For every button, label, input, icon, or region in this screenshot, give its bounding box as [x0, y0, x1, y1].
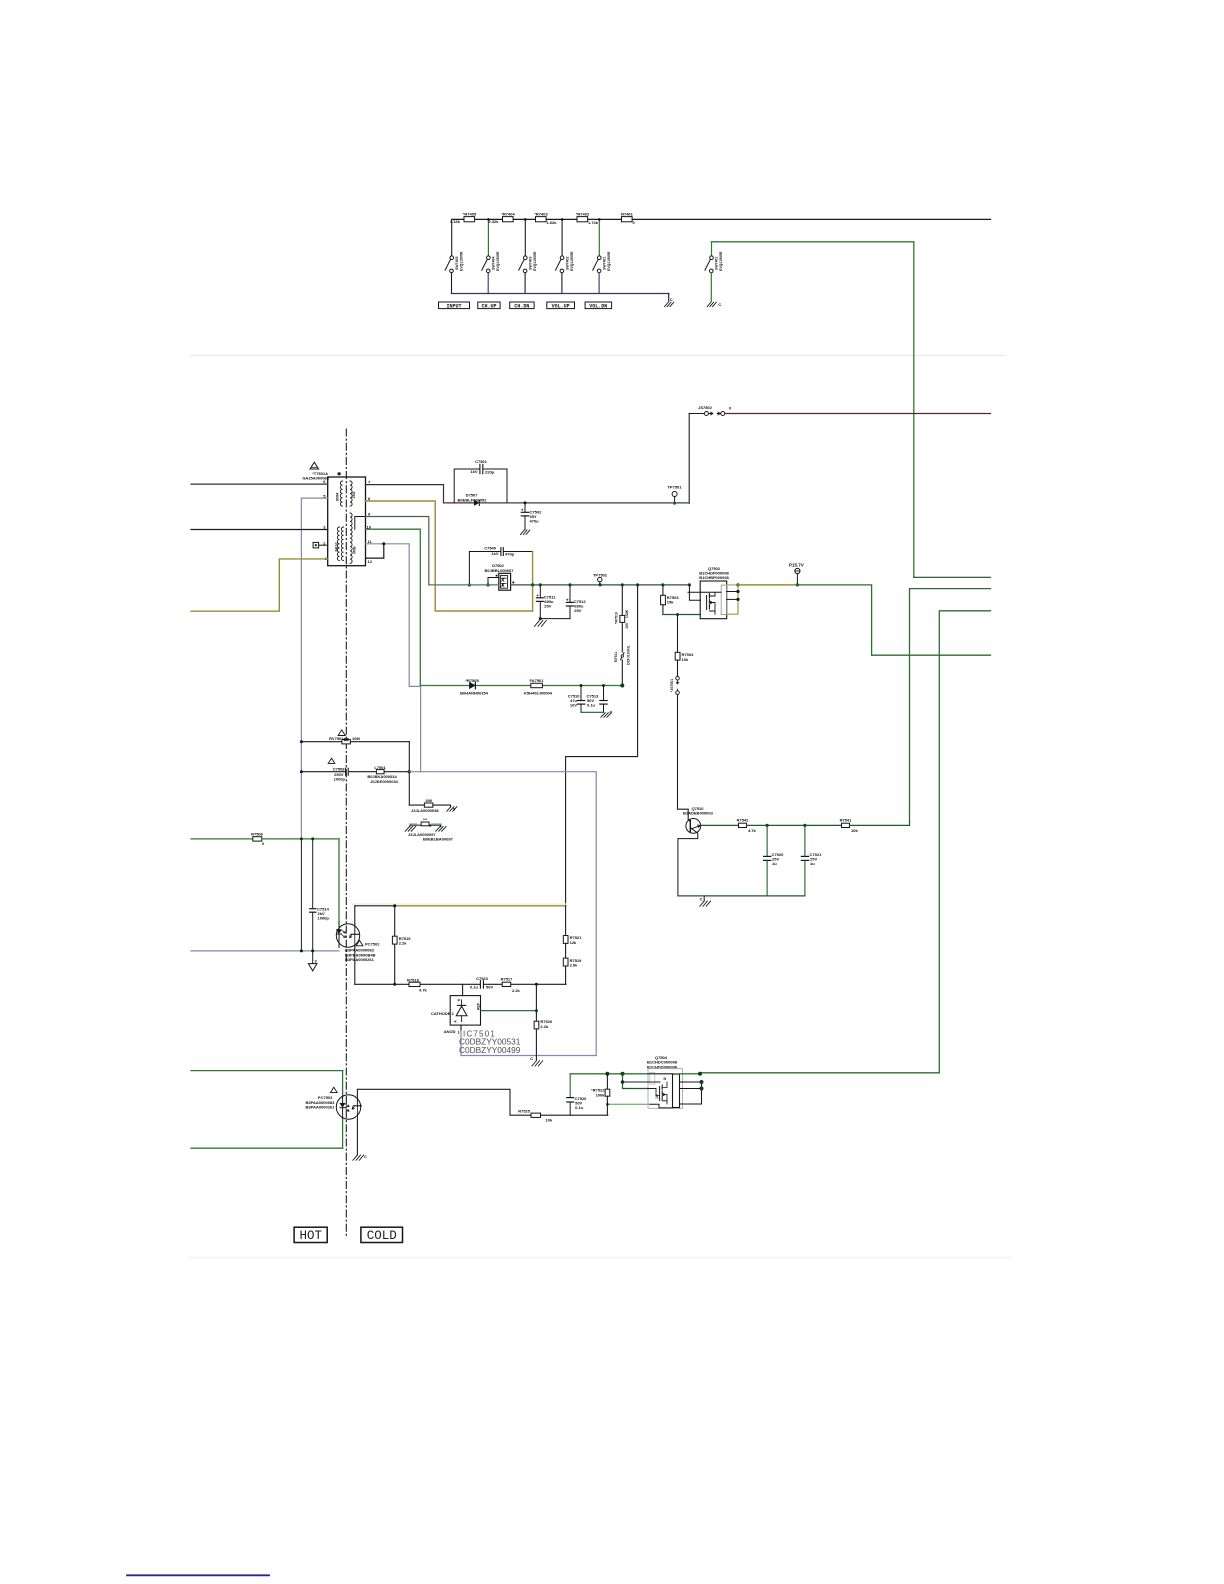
wire PC7502 emitter to bottom bus	[354, 947, 356, 985]
wire: JS7502 down to D7507 output	[688, 414, 690, 504]
ground C7511/C7512	[534, 621, 546, 627]
svg-text:4.7k: 4.7k	[419, 987, 428, 992]
wire pin11 slate	[366, 544, 421, 772]
svg-text:C7501: C7501	[475, 459, 488, 464]
resistor R7520	[534, 984, 553, 1060]
svg-text:GA25A000088: GA25A000088	[302, 476, 329, 481]
svg-text:16V: 16V	[570, 703, 577, 708]
svg-text:1000p: 1000p	[334, 776, 346, 781]
wire RV7501 junction down	[408, 742, 410, 805]
svg-text:470p: 470p	[505, 551, 515, 556]
svg-text:3.16k: 3.16k	[450, 219, 461, 224]
link underline	[127, 1574, 269, 1576]
svg-text:30M4: 30M4	[336, 493, 340, 502]
capacitor C7512	[566, 585, 586, 619]
link M7511	[614, 644, 631, 685]
svg-text:10k: 10k	[851, 828, 858, 833]
svg-text:15k: 15k	[667, 600, 674, 605]
resistor R7517	[501, 976, 521, 992]
wire staircase top (SW7401 net)	[914, 576, 991, 578]
testpoint TP7502	[593, 572, 608, 585]
power flag P15.7V	[789, 562, 804, 586]
wire pin5 slate vertical	[300, 498, 302, 839]
svg-text:4.7k: 4.7k	[748, 828, 757, 833]
svg-text:*R7402: *R7402	[576, 212, 590, 217]
svg-text:PC7502: PC7502	[365, 942, 380, 947]
wire green supply to Q7504	[570, 1073, 648, 1075]
varistor RV7501	[301, 730, 409, 744]
wire slate hot-gnd bus	[191, 950, 339, 952]
wire: maroon standby line to right edge	[725, 413, 991, 415]
wire pin9 gray-green to rail	[366, 517, 429, 585]
svg-text:TP7501: TP7501	[667, 485, 682, 490]
svg-text:B3PAA0000261: B3PAA0000261	[306, 1105, 336, 1110]
wire PC7502 collector loop	[354, 906, 356, 924]
wire Q7502 drain pins to bus	[727, 592, 738, 600]
svg-text:TP7502: TP7502	[593, 572, 608, 577]
svg-text:D2FJ10UNL: D2FJ10UNL	[626, 644, 630, 665]
capacitor C7520	[764, 825, 784, 896]
capacitor C7514	[310, 839, 330, 951]
inductor L7501	[367, 765, 409, 784]
node HOT	[294, 1227, 327, 1243]
ground J3JLA0000097 right	[436, 827, 446, 832]
svg-text:J3JLA0000038: J3JLA0000038	[411, 808, 439, 813]
resistor R7401	[621, 212, 635, 226]
pin2 NC square	[313, 542, 319, 548]
svg-text:EVQ11505R: EVQ11505R	[719, 251, 723, 271]
wire light green gate line	[607, 1103, 650, 1105]
svg-text:B0HANN00154: B0HANN00154	[460, 690, 489, 695]
wire: top ladder line	[452, 218, 991, 220]
wire Q7510 emitter bus	[678, 895, 805, 897]
wire pin3 from left edge	[191, 529, 328, 531]
svg-text:R7506: R7506	[251, 832, 264, 837]
diode D7502	[485, 563, 515, 590]
switch SW7401 (power)	[705, 242, 723, 302]
svg-text:0.1u: 0.1u	[587, 703, 596, 708]
HOT/COLD isolation dash-dot line	[345, 429, 347, 1237]
capacitor C7521	[801, 825, 822, 896]
wire pin7	[366, 485, 444, 503]
wire rail into D7502	[429, 584, 499, 586]
ground J3JLA0000038	[447, 807, 457, 812]
svg-text:2.2k: 2.2k	[399, 941, 408, 946]
resistor R7510	[615, 585, 630, 652]
svg-text:1.74k: 1.74k	[588, 220, 599, 225]
svg-text:R7542: R7542	[737, 817, 750, 822]
svg-text:REF: REF	[476, 1002, 480, 1010]
svg-text:B1ADEB000003: B1ADEB000003	[683, 811, 714, 816]
svg-text:CH.UP: CH.UP	[481, 303, 496, 309]
capacitor C7540	[469, 545, 532, 585]
svg-text:0.1u: 0.1u	[470, 984, 479, 989]
svg-text:0.1u: 0.1u	[575, 1105, 584, 1110]
svg-text:B1CHBF000008: B1CHBF000008	[699, 575, 729, 580]
svg-text:100k: 100k	[596, 1092, 606, 1097]
chassis arrow	[308, 951, 317, 971]
svg-text:2.32k: 2.32k	[489, 219, 500, 224]
wire olive top bus	[395, 905, 566, 907]
svg-text:ANOD: ANOD	[444, 1029, 456, 1034]
svg-text:B3PAA0000261: B3PAA0000261	[345, 957, 375, 962]
diode D7507	[458, 493, 488, 506]
svg-text:B0JBRL000007: B0JBRL000007	[485, 568, 515, 573]
ground Q7510	[700, 896, 711, 906]
wire maroon segment into D7507	[444, 502, 474, 504]
svg-text:+: +	[536, 593, 539, 598]
jumper J3JLA0000038	[409, 799, 456, 813]
svg-text:***: ***	[423, 818, 428, 822]
resistor R7518	[407, 977, 428, 992]
wire: tap verticals	[451, 219, 453, 256]
faint page boundary line lower	[190, 1257, 1010, 1259]
svg-text:*R7405: *R7405	[463, 212, 477, 217]
svg-text:C: C	[364, 1154, 367, 1159]
optocoupler PC7503	[306, 1087, 362, 1119]
pin9 internal tap	[355, 517, 366, 530]
svg-text:25V: 25V	[544, 604, 551, 609]
svg-text:1.62k: 1.62k	[547, 220, 558, 225]
resistor R7525	[518, 1108, 608, 1122]
ground C7510/C7513	[601, 713, 611, 718]
wire Q7502 source olive loop	[727, 585, 738, 614]
svg-text:C7540: C7540	[484, 545, 497, 550]
wire D7507 output to TP7501/JS7502	[480, 502, 689, 504]
resistor R7521	[563, 935, 582, 958]
jumper J3JLA0000097	[408, 818, 454, 841]
svg-text:SW7401: SW7401	[603, 257, 607, 270]
capacitor C7502	[521, 503, 542, 530]
wire slate bottom	[461, 1055, 596, 1057]
svg-text:C: C	[718, 302, 721, 307]
testpoint TP7501	[667, 485, 682, 505]
wire green R7503 to Q7502 source	[663, 614, 700, 616]
svg-text:K5H402J00004: K5H402J00004	[524, 690, 553, 695]
node VOL.DN	[585, 302, 612, 309]
capacitor C7508 (series)	[301, 758, 376, 781]
transformer windings	[337, 481, 352, 563]
jumper JS7502	[689, 405, 732, 416]
wire JS7501 down to Q7510 base	[678, 694, 689, 819]
capacitor C7526	[567, 1074, 587, 1115]
wire green vert from supply dot	[623, 1074, 649, 1089]
svg-text:12k: 12k	[570, 940, 577, 945]
resistor R7506	[191, 832, 339, 847]
node VOL.UP	[547, 302, 575, 309]
fuse FA7501	[524, 678, 553, 695]
wire: power switch green to right	[712, 241, 914, 243]
resistor R7404	[489, 212, 516, 224]
transformer T7501A	[302, 462, 365, 566]
svg-text:SW7404: SW7404	[492, 257, 496, 270]
wire staircase third	[700, 611, 991, 1073]
ground SW7401	[707, 302, 716, 306]
faint page boundary line upper	[190, 355, 1005, 357]
svg-text:2.0k: 2.0k	[570, 963, 579, 968]
svg-text:J0JKE0000034: J0JKE0000034	[370, 779, 399, 784]
svg-text:C0DBZYY00499: C0DBZYY00499	[459, 1045, 521, 1055]
resistor R7522	[591, 1074, 610, 1115]
svg-text:B0EB1BA00097: B0EB1BA00097	[423, 836, 454, 841]
wire cap commons	[581, 711, 604, 713]
svg-text:1/2W: 1/2W	[625, 609, 629, 618]
svg-text:EVQ11505R: EVQ11505R	[459, 251, 463, 271]
resistor R7405	[450, 212, 477, 224]
optocoupler PC7502	[336, 922, 380, 962]
wire PC7503 collector	[357, 1089, 531, 1115]
svg-text:CATHODE 2: CATHODE 2	[431, 1011, 455, 1016]
resistor R7519	[563, 958, 582, 985]
svg-text:1kV: 1kV	[491, 551, 498, 556]
svg-text:SW7402: SW7402	[565, 257, 569, 270]
shunt regulator IC7501	[431, 984, 481, 1034]
svg-text:SW7405: SW7405	[455, 257, 459, 270]
svg-text:VOL.UP: VOL.UP	[552, 303, 570, 309]
wire bottom feedback bus	[355, 983, 409, 985]
wire staircase second	[910, 589, 991, 822]
svg-text:2.2k: 2.2k	[540, 1024, 549, 1029]
svg-text:EVQ11505R: EVQ11505R	[496, 251, 500, 271]
wire pin1 olive from left edge	[191, 559, 328, 611]
svg-text:24G: 24G	[352, 491, 356, 498]
wire drop x301.4	[300, 839, 302, 951]
svg-text:220p: 220p	[485, 469, 495, 474]
svg-text:COLD: COLD	[367, 1229, 397, 1243]
capacitor C7511	[536, 585, 556, 619]
svg-text:10M: 10M	[352, 736, 360, 741]
ground C7502	[520, 530, 529, 535]
svg-text:C: C	[530, 1056, 533, 1061]
svg-text:*R7404: *R7404	[501, 212, 515, 217]
transistor Q7510	[678, 806, 714, 896]
svg-text:FA7501: FA7501	[529, 678, 544, 683]
ground key bus	[665, 302, 674, 306]
wire pin5 slate stub	[301, 497, 327, 499]
wire pin10 green	[366, 529, 421, 685]
resistor R7504	[675, 615, 694, 677]
svg-text:P15.7V: P15.7V	[789, 562, 804, 567]
wire IC7501 anode	[460, 1025, 462, 1031]
capacitor C7501	[454, 459, 507, 503]
svg-text:SW7401: SW7401	[715, 257, 719, 270]
wire: rail branch to PC7502 loop	[566, 585, 638, 906]
svg-text:100: 100	[625, 623, 629, 629]
node CH.DN	[510, 302, 534, 309]
svg-text:SW7403: SW7403	[529, 257, 533, 270]
svg-text:R7401: R7401	[621, 212, 634, 217]
svg-text:1000p: 1000p	[318, 916, 330, 921]
ground J3JLA0000097 left	[405, 827, 415, 832]
wire main rail	[511, 584, 690, 586]
wire slate to IC7501 anode loop	[409, 772, 596, 1056]
svg-text:CH.DN: CH.DN	[514, 303, 529, 309]
svg-text:M7511: M7511	[614, 652, 618, 663]
svg-text:50V: 50V	[486, 984, 493, 989]
svg-text:R7517: R7517	[501, 976, 514, 981]
svg-text:R7541: R7541	[840, 817, 853, 822]
ground R7520	[532, 1061, 543, 1066]
svg-text:C: C	[670, 297, 673, 302]
svg-text:*R7505: *R7505	[465, 678, 479, 683]
svg-text:HOT: HOT	[299, 1229, 322, 1243]
capacitor C7513	[587, 684, 608, 712]
wire: key bottom bus	[452, 293, 669, 295]
svg-text:C7523: C7523	[476, 976, 489, 981]
svg-text:R7518: R7518	[407, 977, 420, 982]
wire second line into Q7504	[623, 1081, 649, 1083]
svg-text:M0B: M0B	[353, 546, 357, 554]
capacitor C7523 (series)	[470, 976, 493, 990]
transistor Q7502	[688, 566, 730, 619]
svg-text:10M: 10M	[425, 799, 432, 803]
resistor R7515	[392, 906, 411, 985]
transistor Q7504	[647, 1055, 683, 1108]
svg-text:1u: 1u	[810, 861, 815, 866]
node COLD	[361, 1227, 403, 1243]
resistor R7402	[576, 212, 599, 226]
capacitor C7510	[568, 684, 585, 712]
wire Q7510 output	[701, 824, 739, 826]
svg-text:*R7510: *R7510	[615, 612, 619, 624]
svg-text:INPUT: INPUT	[446, 303, 461, 309]
wire cap commons	[540, 618, 570, 620]
switch SW7403	[519, 251, 537, 293]
resistor R7403	[534, 212, 557, 226]
diode *R7505	[460, 678, 489, 695]
wire olive P15 rail	[738, 584, 797, 586]
svg-text:C: C	[700, 897, 703, 902]
wire pin6 from left edge	[191, 483, 328, 485]
wire Q7504 right pins	[680, 1082, 702, 1104]
svg-text:JS7502: JS7502	[698, 405, 713, 410]
svg-text:1G: 1G	[655, 1094, 659, 1099]
wire pin12	[366, 544, 384, 558]
svg-text:C: C	[610, 710, 613, 715]
svg-text:470u: 470u	[530, 518, 540, 523]
svg-text:10k: 10k	[546, 1118, 553, 1123]
switch SW7404	[482, 251, 500, 293]
switch SW7401	[593, 251, 611, 293]
node CH.UP	[478, 302, 500, 309]
svg-text:B0EBLF000052: B0EBLF000052	[458, 497, 488, 502]
resistor R7542	[737, 817, 757, 833]
jumper JS7501	[670, 677, 680, 695]
svg-text:EVQ11505R: EVQ11505R	[607, 251, 611, 271]
svg-text:84/1d: 84/1d	[335, 543, 339, 552]
svg-text:10k: 10k	[682, 657, 689, 662]
wire R7521 chain column	[565, 906, 567, 936]
resistor R7541	[840, 817, 859, 833]
svg-text:12: 12	[368, 559, 373, 564]
svg-text:*JS7501: *JS7501	[670, 679, 674, 692]
wire IC7501 ref green	[481, 1010, 537, 1012]
wire PC7503 emitter + ground	[353, 1119, 367, 1161]
switch SW7405	[445, 251, 463, 293]
svg-text:VOL.DN: VOL.DN	[589, 303, 607, 309]
svg-text:1u: 1u	[772, 861, 777, 866]
svg-text:1kV: 1kV	[470, 469, 477, 474]
resistor R7503	[661, 585, 680, 615]
svg-text:+: +	[566, 597, 569, 602]
node INPUT	[439, 302, 470, 309]
svg-text:EVQ11505R: EVQ11505R	[570, 251, 574, 271]
switch SW7402	[556, 251, 574, 293]
wire pin8 olive	[366, 501, 533, 611]
wire green feed	[420, 685, 622, 687]
wire green loop left	[191, 1070, 343, 1072]
wire green rail to staircase	[797, 585, 990, 655]
svg-text:25V: 25V	[574, 608, 581, 613]
wire olive link C7540 to pin8 net	[532, 552, 534, 612]
svg-text:EVQ11505R: EVQ11505R	[533, 251, 537, 271]
svg-text:*R7403: *R7403	[534, 212, 548, 217]
svg-text:2.2k: 2.2k	[512, 988, 521, 993]
svg-text:R7525: R7525	[518, 1108, 531, 1113]
wire green into PC7502	[338, 839, 340, 922]
